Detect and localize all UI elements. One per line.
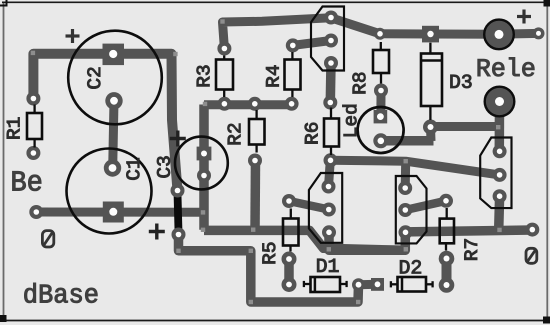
pad R6 top [323, 96, 337, 110]
wire jumper pad down right down right to D1 right pad [179, 235, 359, 303]
capacitor C1 [67, 149, 152, 234]
label D1 [317, 259, 338, 272]
pad C1 plus big [104, 159, 121, 176]
resistor R4 [285, 52, 301, 97]
polarity mark + top right [517, 10, 531, 24]
pad R5 link bottom D1 left [282, 277, 297, 292]
pad R7 link top [439, 251, 455, 267]
wire Q3 pin3 down to R6 top pad [326, 63, 336, 103]
label Be [13, 171, 42, 190]
wire R7 bottom pad link [442, 259, 452, 286]
label R1 [7, 118, 20, 139]
label D3 [451, 75, 472, 88]
resistor R8 [373, 42, 389, 84]
wire C3 column vertical [199, 105, 209, 230]
wire branch down to Q2 pin1 [401, 161, 411, 188]
wire big pad 2 down to Rele pin1 [495, 102, 505, 152]
resistor R3 [216, 56, 233, 98]
connector Rele outline [480, 138, 511, 209]
pad Q2 pin3 [399, 225, 413, 239]
pad R5 link top [282, 252, 297, 267]
pad D3 top square (square) [422, 26, 439, 43]
pad Led round [373, 133, 388, 148]
diode D1 [303, 277, 348, 292]
pad R1 top [26, 92, 40, 106]
polarity mark + C3 [170, 131, 186, 147]
pad big terminal plus [484, 20, 514, 50]
pad R8 bottom [374, 84, 388, 98]
pad R5 top [282, 194, 296, 208]
pad Q3 pin1 [324, 11, 338, 25]
label C3 [157, 156, 170, 177]
pad Q1 pin2 [322, 203, 336, 217]
wire D3 bottom pad to big pad column [431, 122, 498, 131]
LED outline [358, 107, 404, 153]
resistor R2 [249, 110, 265, 153]
pad C2 minus big [105, 92, 122, 109]
pad Q3 pin3 [324, 56, 338, 70]
transistor Q1 [309, 173, 342, 243]
label R3 [197, 66, 210, 87]
label C2 [87, 68, 100, 89]
pad Rele pin3 [493, 189, 507, 203]
capacitor C2 [68, 31, 162, 125]
pad Q3 pin2 [324, 34, 338, 48]
diode D3 [421, 43, 442, 120]
board border left [3, 3, 5, 320]
pad R7 top [439, 194, 453, 208]
pad D1 right [352, 278, 365, 291]
label R8 [353, 73, 366, 94]
wire C2 minus pad to C1 plus pad [113, 101, 114, 168]
wire Rele pin3 down to bottom rail [494, 196, 504, 230]
wire D1 right pad to D2 square pad [359, 280, 378, 289]
wire C3 corner to mid rail under R5 joining U link [204, 230, 406, 250]
pad Be node [29, 205, 43, 219]
wire R6 bottom pad across to Rele pin2 [331, 160, 500, 175]
board border top [2, 1, 550, 3]
pad R7 link bottom [439, 277, 455, 293]
corner mark bottom left [0, 315, 7, 322]
diode D2 [390, 277, 434, 292]
pad R4 bottom [285, 97, 299, 111]
pad Rele pin1 [493, 144, 507, 158]
wire bottom right rail Q2 pin3 to corner pad [406, 230, 533, 232]
pad R3 top [217, 42, 231, 56]
wire junction markers [31, 19, 502, 304]
label R5 [263, 243, 276, 264]
board border bottom [0, 320, 550, 322]
label R4 [266, 65, 279, 86]
wire R8 bottom pad to Led square pad [376, 91, 385, 117]
wire R5 top pad diagonal to Q1 pin2 [289, 201, 329, 210]
resistor R7 [440, 208, 454, 251]
pad C1 minus square (square) [103, 202, 124, 223]
wire R2 bottom pad down to rail [250, 161, 260, 231]
wire Led round pad right to D3 stub [381, 136, 434, 146]
pad Q2 pin2 [398, 203, 412, 217]
polarity mark + C2 [66, 29, 80, 43]
wire Be pad across to C3 column [36, 208, 204, 217]
jumper wire (black link) [178, 193, 179, 232]
pad C3 top square (square) [197, 147, 212, 161]
corner mark top right [544, 0, 550, 7]
label R7 [464, 239, 477, 259]
polarity mark + C1 [149, 224, 165, 240]
label D2 [400, 260, 421, 273]
pad R6 bottom [324, 153, 338, 167]
resistor R1 [27, 105, 42, 148]
pad Q1 pin3 [322, 225, 336, 239]
pad Rele pin2 [493, 168, 507, 182]
wire net V+ rail: R1 top pad up across to jumper top pad [33, 54, 177, 191]
label 0 right (slashed zero) [526, 248, 537, 263]
pad R1 bottom [26, 146, 40, 160]
wire Q2 pin2 diagonal to R7 top pad [405, 201, 446, 210]
wire net top: R3 pad up across to Q3 pin1, R8 pad, D3 square pad, big pad, corner pad [223, 18, 539, 49]
label R6 [305, 123, 318, 144]
pad D3 bottom [423, 120, 438, 135]
pad big terminal Rele [485, 87, 515, 117]
pad R2 bottom [248, 154, 262, 168]
jumper bottom pad ring [174, 230, 184, 240]
pad R4 top [286, 38, 300, 52]
label dBase [24, 283, 97, 303]
capacitor C3 [175, 137, 228, 190]
wire branch down to Q1 pin1 [329, 160, 331, 186]
transistor Q2 [396, 176, 427, 243]
pad D2 left square (square) [371, 278, 384, 291]
wire mid rail with R3 R2 R4 pads [204, 100, 292, 109]
pad top right small [533, 27, 545, 39]
pad R2 top [248, 97, 262, 111]
wire stub up to D3 bottom pad [426, 127, 436, 141]
pad R3 bottom [217, 97, 231, 111]
jumper top pad ring [173, 186, 183, 196]
wire U link Q1 pin3 to Q2 pin3 [329, 232, 405, 250]
pad Led square (square) [374, 110, 388, 123]
pad Q1 pin1 [322, 180, 336, 194]
label Led [343, 105, 357, 136]
transistor Q3 [311, 7, 344, 71]
pad C2 plus square (square) [103, 44, 125, 66]
label R2 [228, 124, 241, 145]
pad 0 corner bottom right [525, 223, 539, 237]
pad C3 lower [197, 169, 211, 183]
board border right [546, 0, 548, 320]
resistor R5 [283, 209, 299, 252]
pad R8 top [374, 28, 386, 40]
label C1 [126, 158, 139, 179]
corner mark bottom right [543, 317, 550, 324]
resistor R6 [324, 108, 339, 156]
label Rele [478, 58, 534, 77]
wire R5 bottom pad link [284, 259, 294, 285]
label 0 left (slashed zero) [42, 231, 53, 247]
corner mark top left [6, 0, 8, 6]
wire R4 top pad to Q3 pin2 [293, 41, 331, 46]
pad Q2 pin1 [398, 181, 412, 195]
